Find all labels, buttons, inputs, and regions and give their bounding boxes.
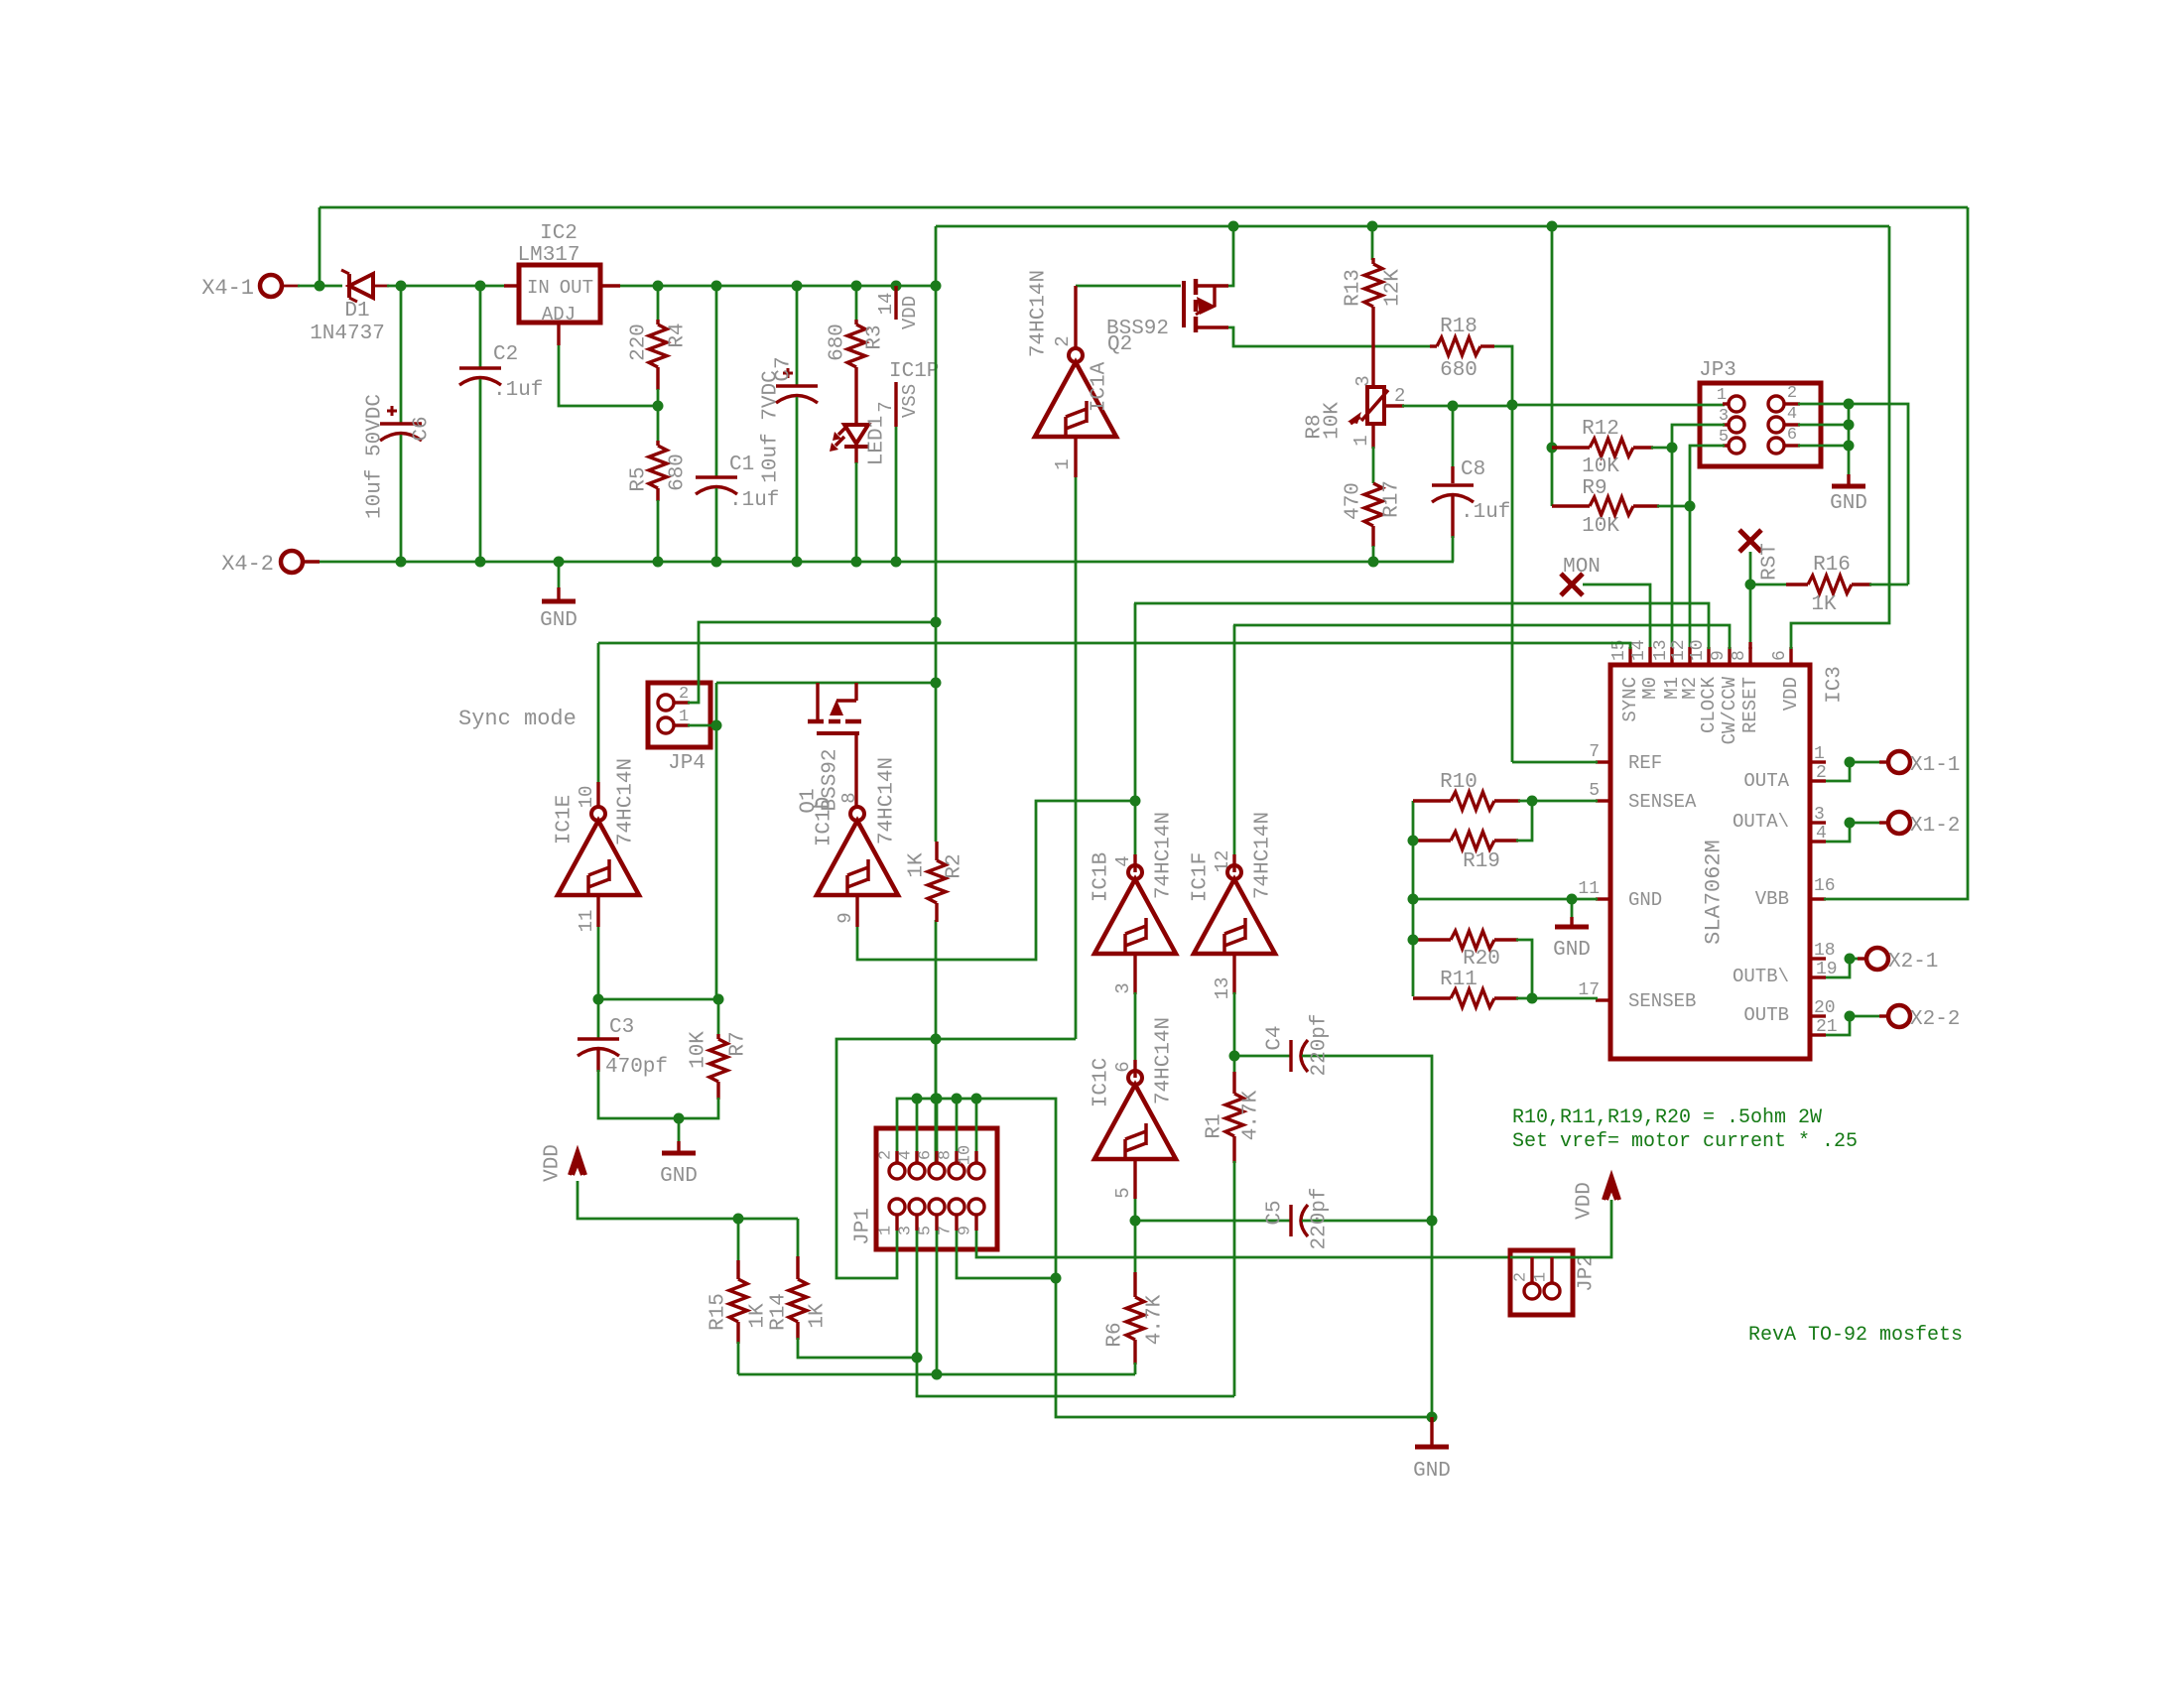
node pair <box>1845 1011 1856 1022</box>
svg-text:1N4737: 1N4737 <box>310 323 385 345</box>
svg-text:9: 9 <box>835 912 856 923</box>
node JP3-6 <box>1844 441 1855 452</box>
svg-text:CLOCK: CLOCK <box>1698 676 1720 733</box>
resistor R6 4.7K <box>1133 1272 1136 1297</box>
svg-text:8: 8 <box>937 1150 956 1160</box>
pin stub down <box>935 1215 938 1231</box>
svg-text:74HC14N: 74HC14N <box>1028 270 1051 357</box>
svg-text:5: 5 <box>1589 781 1600 801</box>
wire pair join <box>1826 959 1850 977</box>
pin 1 lead IC1A <box>1074 437 1077 477</box>
connector JP4 pin 1 <box>658 717 674 733</box>
wire CLOCK long wire <box>1134 603 1709 649</box>
pin 19 IC3 right stub <box>1810 975 1826 978</box>
connector JP3 pin 3 <box>1729 417 1744 433</box>
svg-text:1: 1 <box>679 708 689 726</box>
pin 13 lead <box>1232 954 1235 994</box>
resistor R10 .5ohm <box>1412 801 1415 996</box>
node top bus <box>932 1094 943 1104</box>
svg-text:ADJ: ADJ <box>542 304 576 325</box>
pin 9 IC3 top stub <box>1728 647 1731 665</box>
svg-text:14: 14 <box>1629 639 1649 661</box>
svg-text:LED1: LED1 <box>866 416 889 465</box>
connector pad X4-1 <box>260 275 282 297</box>
pin JP3-2 stub <box>1784 402 1800 405</box>
transistor Q1 BSS92 p-mosfet <box>816 683 819 721</box>
pin 15 IC3 top stub <box>1628 647 1631 665</box>
resistor R5 680 <box>657 406 660 443</box>
svg-text:74HC14N: 74HC14N <box>876 757 899 844</box>
svg-text:VBB: VBB <box>1755 888 1789 910</box>
wire JP1 pin3 down <box>917 1231 1234 1396</box>
pin 8 IC3 top stub <box>1748 647 1751 665</box>
pin 11 IC3 left stub <box>1596 897 1610 900</box>
capacitor C2 .1uf <box>479 286 482 368</box>
node left riser mid <box>1408 894 1419 905</box>
svg-text:R9: R9 <box>1582 477 1606 500</box>
svg-text:R17: R17 <box>1381 480 1404 518</box>
connector JP1 pin 5 <box>929 1199 945 1215</box>
pin stub up <box>935 1151 938 1163</box>
svg-text:8: 8 <box>838 792 860 803</box>
connector pad X1-1 <box>1888 751 1910 773</box>
svg-text:R10: R10 <box>1440 771 1477 794</box>
svg-text:10: 10 <box>576 786 597 809</box>
connector JP1 pin 9 <box>968 1199 984 1215</box>
pin OUT lead <box>600 284 620 287</box>
pin stub down <box>974 1215 977 1231</box>
resistor R9 10K <box>1552 504 1590 507</box>
connector JP1 pin 3 <box>909 1199 925 1215</box>
transistor Q2 BSS92 p-mosfet <box>1182 281 1186 327</box>
wire pair join <box>1826 762 1850 781</box>
node rail R17 <box>1368 557 1379 568</box>
svg-text:R4: R4 <box>667 323 690 347</box>
node R3 top <box>851 281 862 292</box>
svg-text:IC1P: IC1P <box>889 360 939 383</box>
svg-text:R19: R19 <box>1463 850 1500 873</box>
svg-text:VDD: VDD <box>1574 1182 1597 1220</box>
svg-text:X2-1: X2-1 <box>1888 951 1938 974</box>
wire IC1F out <box>1233 992 1236 1056</box>
svg-text:1K: 1K <box>807 1303 830 1329</box>
svg-text:3: 3 <box>897 1226 916 1235</box>
node frame riser <box>931 1034 942 1045</box>
svg-text:9: 9 <box>1709 650 1729 661</box>
wire REF wire <box>1512 761 1598 764</box>
svg-text:1K: 1K <box>906 852 929 878</box>
connector JP4 pin 2 <box>658 695 674 711</box>
pin 14 IC3 top stub <box>1648 647 1651 665</box>
svg-text:220: 220 <box>628 324 651 361</box>
node GND join <box>674 1113 685 1124</box>
node C7 top <box>792 281 803 292</box>
svg-text:11: 11 <box>576 910 597 933</box>
connector JP3 pin 2 <box>1768 396 1784 412</box>
resistor R16 1K <box>1750 584 1788 586</box>
IC IC3 SLA7062M box <box>1610 665 1810 1059</box>
wire IC1D out <box>857 801 1135 960</box>
resistor R20 .5ohm <box>1413 938 1451 941</box>
node R19 left <box>1408 836 1419 846</box>
wire JP1 top riser <box>975 1099 978 1151</box>
svg-text:11: 11 <box>1578 879 1600 899</box>
node R14 join <box>912 1353 923 1363</box>
svg-text:GND: GND <box>540 609 578 632</box>
svg-text:SENSEB: SENSEB <box>1628 990 1696 1012</box>
svg-text:13: 13 <box>1212 977 1233 1000</box>
pin JP2-2 stub <box>1530 1257 1533 1283</box>
node JP4-2 bus <box>931 617 942 628</box>
svg-text:JP2: JP2 <box>1576 1254 1599 1292</box>
pin stub down <box>915 1215 918 1231</box>
svg-text:1: 1 <box>1052 458 1074 469</box>
pin 6 IC3 top stub <box>1789 647 1792 665</box>
resistor R18 680 <box>1430 344 1437 347</box>
pin 2 lead IC1A <box>1074 286 1077 348</box>
svg-text:IN: IN <box>527 277 550 299</box>
svg-text:GND: GND <box>660 1165 698 1188</box>
wire to pad X2-2 <box>1850 1015 1879 1018</box>
wire CW/CCW long wire <box>1233 625 1730 649</box>
wire Q2 drain to bus <box>1228 226 1233 286</box>
svg-text:RevA TO-92 mosfets: RevA TO-92 mosfets <box>1748 1324 1963 1347</box>
svg-text:C6: C6 <box>411 416 434 441</box>
svg-text:R11: R11 <box>1440 969 1477 991</box>
svg-text:CW/CCW: CW/CCW <box>1719 676 1740 744</box>
wire pair join <box>1826 823 1850 842</box>
connector pad X2-2 <box>1888 1005 1910 1027</box>
svg-text:6: 6 <box>1770 650 1790 661</box>
svg-text:C8: C8 <box>1461 458 1485 481</box>
wire JP1 pin7 down <box>957 1231 1056 1278</box>
connector pad X4-2 <box>281 551 303 573</box>
wire JP1 pin1 to frame <box>836 1039 1076 1278</box>
LED LED1 <box>844 423 868 427</box>
connector JP3 pin 6 <box>1768 438 1784 454</box>
ground GND main <box>558 562 561 587</box>
wire IC1F input riser <box>1233 625 1236 858</box>
svg-text:1K: 1K <box>747 1303 770 1329</box>
connector JP4 box <box>648 683 710 747</box>
resistor R19 .5ohm <box>1413 839 1451 842</box>
node R9 right <box>1685 501 1696 512</box>
svg-text:4: 4 <box>1787 405 1797 424</box>
svg-text:GND: GND <box>1830 492 1867 515</box>
wire pad stub <box>303 560 320 563</box>
node REF riser R8 wiper <box>1507 400 1518 411</box>
node C8 tap <box>1448 401 1459 412</box>
node rail C1 <box>711 557 722 568</box>
svg-text:SLA7062M: SLA7062M <box>1702 840 1727 945</box>
svg-text:R10,R11,R19,R20 = .5ohm 2W: R10,R11,R19,R20 = .5ohm 2W <box>1512 1106 1822 1129</box>
svg-text:VDD: VDD <box>542 1144 565 1182</box>
wire IC1A input from gate row <box>1076 285 1181 288</box>
op-amp U IC2 LM317 regulator box <box>519 265 600 323</box>
wire D1 to IN <box>373 285 389 288</box>
node rail GND stub <box>554 557 565 568</box>
wire JP3 pin2 to right riser <box>1798 404 1908 584</box>
wire R18 to REF riser <box>1494 346 1512 762</box>
node bus R13 <box>1367 221 1378 232</box>
svg-text:IC1C: IC1C <box>1091 1058 1113 1107</box>
wire long vertical net riser x943 <box>935 226 938 842</box>
svg-text:4.7K: 4.7K <box>1144 1294 1167 1345</box>
svg-text:1K: 1K <box>1811 593 1837 616</box>
connector pad X2-1 <box>1866 948 1888 970</box>
IC1P power pin VSS 7 <box>894 382 897 427</box>
svg-text:GND: GND <box>1628 889 1662 911</box>
capacitor C1 .1uf <box>715 286 718 477</box>
svg-text:10: 10 <box>957 1145 975 1165</box>
no-connect MON flag <box>1561 574 1583 595</box>
wire JP3 pin5 to M2 <box>1690 446 1725 647</box>
svg-text:JP3: JP3 <box>1699 359 1736 382</box>
wire VBB to top bus <box>1824 207 1968 899</box>
node bus Q2 drain <box>1228 221 1239 232</box>
svg-text:2: 2 <box>1052 335 1074 346</box>
wire GND wire <box>1413 898 1598 901</box>
svg-text:IC3: IC3 <box>1824 666 1847 704</box>
pin 6 lead <box>1133 1060 1136 1078</box>
potentiometer R8 10K <box>1367 387 1384 424</box>
node rail LED1 <box>851 557 862 568</box>
svg-text:1: 1 <box>877 1226 896 1235</box>
no-connect RST flag <box>1739 530 1761 552</box>
capacitor C7 10uf 7VDC <box>796 286 799 386</box>
capacitor C8 .1uf <box>1452 406 1455 468</box>
svg-text:R16: R16 <box>1813 554 1851 577</box>
svg-text:14: 14 <box>875 293 897 316</box>
wire JP4 pin1 riser <box>715 683 718 999</box>
svg-text:X1-1: X1-1 <box>1910 754 1960 777</box>
capacitor C6 10uf 50VDC <box>400 286 403 424</box>
connector JP3 box <box>1700 383 1821 466</box>
node rail VSS <box>891 557 902 568</box>
resistor R7 10K <box>717 999 720 1036</box>
wire IC1C out to R6 <box>1134 1221 1137 1274</box>
svg-text:18: 18 <box>1814 941 1836 961</box>
svg-text:IC1B: IC1B <box>1091 852 1113 902</box>
wire JP4 pin1 <box>688 724 716 727</box>
svg-text:5: 5 <box>1112 1187 1134 1198</box>
svg-text:IC2: IC2 <box>540 222 578 245</box>
svg-text:SYNC: SYNC <box>1619 677 1641 722</box>
wire IC1E out <box>597 927 600 999</box>
ground GND C3R7 <box>678 1118 681 1141</box>
pin Q1 gate lead <box>854 733 857 806</box>
svg-text:10uf 7VDC: 10uf 7VDC <box>760 370 783 482</box>
svg-text:RST: RST <box>1759 543 1782 581</box>
svg-text:SENSEA: SENSEA <box>1628 791 1697 813</box>
svg-text:6: 6 <box>1787 426 1797 445</box>
wire JP1 pin9 down <box>976 1231 1510 1257</box>
svg-text:3: 3 <box>1719 407 1729 426</box>
node R12 right <box>1667 443 1678 454</box>
svg-text:2: 2 <box>1816 763 1827 783</box>
svg-text:220pf: 220pf <box>1309 1187 1332 1249</box>
resistor R3 680 <box>855 286 858 322</box>
resistor R15 1K <box>737 1219 740 1262</box>
svg-text:R14: R14 <box>768 1293 791 1331</box>
pin 18 IC3 right stub <box>1810 957 1826 960</box>
pin JP4-1 stub <box>674 723 690 726</box>
wire C3 R7 top <box>598 998 718 1001</box>
svg-text:10K: 10K <box>1582 515 1619 538</box>
svg-text:IC1F: IC1F <box>1190 852 1213 902</box>
resistor R14 1K <box>797 1219 800 1258</box>
pin ADJ lead <box>557 323 560 345</box>
svg-text:470: 470 <box>1343 482 1365 520</box>
svg-text:10: 10 <box>1688 639 1708 661</box>
pin 21 IC3 right stub <box>1810 1033 1826 1036</box>
svg-text:R7: R7 <box>727 1031 750 1056</box>
node top bus <box>912 1094 923 1104</box>
svg-text:OUTA\: OUTA\ <box>1733 811 1789 833</box>
node GND stub IC3 <box>1567 894 1578 905</box>
node C6 tap <box>396 281 407 292</box>
pin 5 lead <box>1133 1159 1136 1199</box>
wire Q2 source down <box>1228 327 1430 346</box>
pin JP2-1 stub <box>1550 1257 1553 1283</box>
svg-text:RESET: RESET <box>1739 677 1761 733</box>
pin 16 stub <box>1810 897 1826 900</box>
wire JP3 pin6 <box>1798 445 1849 448</box>
power VDD arrow right <box>1604 1176 1619 1200</box>
node VDD pin tap <box>891 281 902 292</box>
node Q1 bus <box>931 678 942 689</box>
svg-text:IC1D: IC1D <box>814 797 836 846</box>
connector JP1 pin 8 <box>949 1163 964 1179</box>
svg-text:R5: R5 <box>628 466 651 491</box>
wire SENSEB wire <box>1532 997 1598 1000</box>
svg-text:IC1A: IC1A <box>1089 361 1111 412</box>
capacitor C4 220pf <box>1234 1055 1291 1058</box>
svg-text:13: 13 <box>1651 639 1671 661</box>
pin stub up <box>955 1151 958 1163</box>
pin 17 IC3 left stub <box>1596 998 1610 1001</box>
svg-text:1: 1 <box>1350 435 1372 446</box>
node pair <box>1845 954 1856 965</box>
pin 7 IC3 left stub <box>1596 760 1610 763</box>
svg-text:C3: C3 <box>609 1016 634 1039</box>
wire OUT rail <box>620 285 936 288</box>
svg-text:R6: R6 <box>1104 1322 1127 1347</box>
connector JP1 pin 7 <box>949 1199 964 1215</box>
svg-text:74HC14N: 74HC14N <box>1252 812 1275 899</box>
connector JP2 box <box>1510 1250 1573 1315</box>
capacitor C5 220pf <box>1135 1220 1291 1223</box>
svg-text:2: 2 <box>1787 384 1797 403</box>
svg-text:.1uf: .1uf <box>1461 501 1510 524</box>
svg-text:10uf 50VDC: 10uf 50VDC <box>364 394 387 519</box>
node rail R5 <box>653 557 664 568</box>
node IC1B input <box>1130 796 1141 807</box>
wire JP3 pin1 from REF net <box>1512 404 1725 407</box>
wire JP4 pin2 to raw bus <box>688 622 936 703</box>
pin stub down <box>895 1215 898 1231</box>
pin 1 IC3 right stub <box>1810 760 1826 763</box>
svg-text:LM317: LM317 <box>517 244 579 267</box>
svg-text:.1uf: .1uf <box>493 379 543 402</box>
node pair <box>1845 818 1856 829</box>
node rail C7 <box>792 557 803 568</box>
svg-text:Sync mode: Sync mode <box>458 707 577 731</box>
svg-text:10K: 10K <box>1322 402 1345 440</box>
svg-text:D1: D1 <box>344 300 369 323</box>
svg-text:OUTA: OUTA <box>1743 770 1789 792</box>
node IC1E out <box>593 994 604 1005</box>
svg-text:1: 1 <box>1814 744 1825 764</box>
svg-text:R15: R15 <box>707 1293 730 1331</box>
pin 2 IC3 right stub <box>1810 779 1826 782</box>
svg-text:Q2: Q2 <box>1107 333 1132 356</box>
wire R8 to R17 <box>1372 447 1375 483</box>
svg-text:4.7K: 4.7K <box>1240 1090 1263 1140</box>
pin stub up <box>915 1151 918 1163</box>
svg-text:R13: R13 <box>1343 269 1365 307</box>
wire VDD pin6 route <box>1791 226 1889 649</box>
op-amp U IC1D 74HC14N inverter <box>850 807 864 821</box>
pin JP3-3 stub <box>1723 423 1729 426</box>
wire ground rail X4-2 <box>304 561 1454 564</box>
svg-text:3: 3 <box>1814 805 1825 825</box>
svg-text:7: 7 <box>875 401 897 412</box>
svg-text:VDD: VDD <box>899 296 921 329</box>
svg-text:5: 5 <box>1719 428 1729 447</box>
wire top VIN bus <box>320 206 1968 209</box>
connector JP3 pin 1 <box>1729 396 1744 412</box>
node top bus <box>971 1094 982 1104</box>
node C4 C5 riser <box>1427 1216 1438 1227</box>
wire IC1A output long vertical <box>1075 477 1078 1039</box>
wire R15 to R6 rail <box>738 1373 1135 1376</box>
svg-text:2: 2 <box>1512 1272 1531 1282</box>
connector JP1 pin 4 <box>909 1163 925 1179</box>
node bus R12 tap <box>1547 221 1558 232</box>
wire JP3 ground riser <box>1848 404 1851 474</box>
svg-text:GND: GND <box>1413 1460 1451 1483</box>
node rail C2 <box>475 557 486 568</box>
pin 10 lead <box>596 782 599 807</box>
svg-text:R2: R2 <box>944 853 966 878</box>
pin 10 IC3 top stub <box>1707 647 1710 665</box>
op-amp U IC1A 74HC14N inverter <box>1069 348 1083 362</box>
wire JP2 row <box>1510 1200 1611 1257</box>
svg-text:4: 4 <box>897 1150 916 1160</box>
IC1P power pin VDD 14 <box>894 286 897 320</box>
resistor R13 12K <box>1371 226 1374 260</box>
svg-text:REF: REF <box>1628 752 1662 774</box>
svg-text:X4-2: X4-2 <box>221 552 274 577</box>
wire JP1 top riser <box>916 1099 919 1151</box>
node raw bus riser <box>931 281 942 292</box>
node ADJ-R4-R5 <box>653 401 664 412</box>
node SENSEA join <box>1527 796 1538 807</box>
wire to pad X1-1 <box>1850 761 1879 764</box>
wire IC1C out <box>1134 1199 1137 1221</box>
wire R12 tap vertical <box>1551 226 1554 506</box>
svg-text:MON: MON <box>1563 556 1601 579</box>
svg-text:680: 680 <box>667 454 690 491</box>
wire JP3 pin4 <box>1798 424 1849 427</box>
svg-text:OUTB: OUTB <box>1743 1004 1789 1026</box>
pin JP3-5 stub <box>1723 444 1729 447</box>
wire X4-1 to top bus riser <box>319 207 321 286</box>
svg-text:1: 1 <box>1532 1272 1551 1282</box>
pin 3 IC3 right stub <box>1810 821 1826 824</box>
wire ADJ to divider <box>559 345 658 406</box>
